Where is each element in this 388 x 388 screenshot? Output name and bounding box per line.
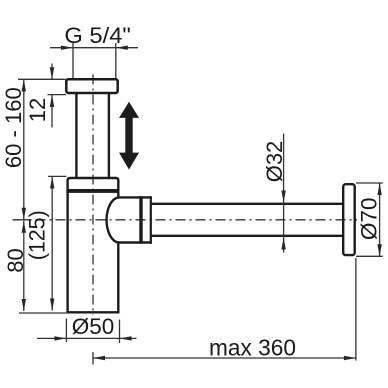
O32 bottom arrowhead [281,238,285,250]
body left wall [66,193,68,313]
O70 dimension line [379,183,381,256]
max-360 dimension line [93,357,356,359]
(125) dimension line [51,177,53,311]
outlet pipe bottom wall [151,235,343,237]
svg-text:60 - 160: 60 - 160 [1,87,26,168]
body-flange-top reference tick [48,175,67,177]
svg-text:G 5/4": G 5/4" [64,23,131,48]
12 upper arrowhead [50,67,54,79]
body right wall lower segment [117,243,119,313]
outlet pipe top wall [151,203,343,205]
80 dimension line [23,221,25,311]
O70 top reference tick [356,182,383,184]
body top flange outline [68,178,119,193]
vertical centerline of trap body [92,75,94,316]
adjustability double-headed arrow [119,102,139,170]
body-bottom reference tick [19,312,66,314]
12 upper witness line [51,64,53,80]
60-160 top arrowhead [22,80,26,92]
svg-text:Ø50: Ø50 [72,314,115,339]
svg-text:max 360: max 360 [209,334,296,360]
(125) top arrowhead [50,177,54,189]
inlet pipe right wall [108,94,110,178]
O50 left extension line [65,319,67,343]
80 bottom arrowhead [22,299,26,311]
elbow nut right edge [150,196,152,244]
elbow top edge [118,196,152,198]
max-360 left extension line [92,352,94,365]
O32 lower witness line [283,238,285,253]
G 5/4 right extension line [115,43,117,79]
G 5/4 left extension line [72,43,74,79]
svg-text:Ø70: Ø70 [356,197,381,240]
svg-text:12: 12 [25,98,50,122]
max-360 right arrowhead [344,356,356,360]
12 lower witness line [51,95,53,128]
horizontal centerline of outlet pipe [36,219,358,221]
O50 left arrowhead [54,336,66,340]
O70 top arrowhead [377,183,381,195]
max-360 right extension line [355,258,357,361]
O50 right extension line [119,320,121,344]
O32 witness line [283,134,285,238]
flange-top reference tick [18,78,66,80]
60-160 dimension line [23,80,25,220]
G 5/4 right arrowhead [116,46,128,50]
body flange dark band [66,189,119,193]
12 lower arrowhead [50,95,54,107]
body bottom edge [66,311,119,313]
horizontal centerline tick at left end [13,219,32,221]
O70 bottom reference tick [356,255,383,257]
G 5/4 left arrowhead [61,46,73,50]
O32 top arrowhead [281,191,285,203]
G 5/4 dimension line [50,47,138,49]
(125) bottom arrowhead [50,299,54,311]
elbow dome curve [107,197,119,242]
O50 right arrowhead [120,336,132,340]
O50 dimension line [37,337,137,339]
max-360 left arrowhead [93,356,105,360]
60-160 bottom arrowhead [22,208,26,220]
svg-text:(125): (125) [25,210,50,260]
elbow bottom edge [118,241,152,243]
body right wall upper segment [117,193,119,198]
O70 bottom arrowhead [377,244,381,256]
inlet pipe left wall [75,94,77,178]
wall flange rosette [343,184,355,255]
top flange nut [66,79,117,93]
elbow nut thick rib [139,196,142,244]
80 top arrowhead [22,221,26,233]
flange-bottom reference tick [48,94,67,96]
